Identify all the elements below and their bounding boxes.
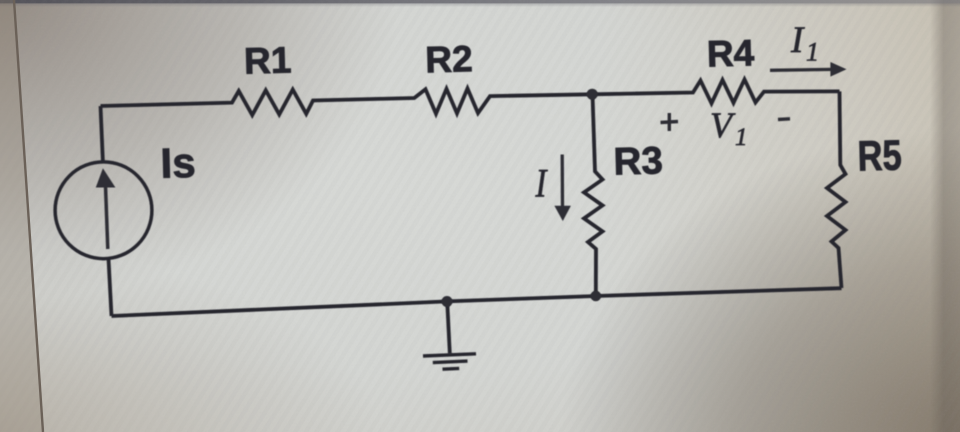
svg-text:I: I <box>535 160 548 205</box>
svg-text:R1: R1 <box>243 40 291 82</box>
svg-text:1: 1 <box>806 37 819 66</box>
svg-text:1: 1 <box>735 124 748 151</box>
svg-text:R4: R4 <box>706 32 755 74</box>
svg-text:R5: R5 <box>857 132 902 180</box>
svg-text:R2: R2 <box>425 38 473 80</box>
svg-text:I: I <box>790 20 805 61</box>
svg-text:R3: R3 <box>613 139 663 183</box>
svg-text:Is: Is <box>160 139 196 187</box>
